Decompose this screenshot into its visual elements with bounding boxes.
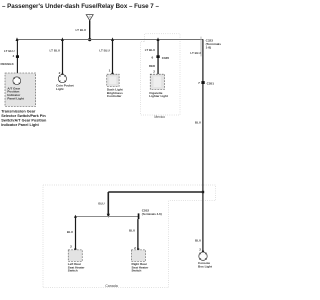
svg-text:C551: C551 <box>207 81 215 85</box>
power source triangle (fuse 7 feed) <box>86 15 93 21</box>
svg-text:Box Light: Box Light <box>198 264 212 268</box>
svg-text:Panel Light: Panel Light <box>7 96 23 100</box>
svg-text:BLU: BLU <box>98 201 104 205</box>
Canada option dotted outline (notched) <box>43 185 216 288</box>
arrow col2 <box>61 37 64 41</box>
connector square at pin 4 <box>16 55 19 58</box>
svg-text:Canada: Canada <box>105 284 118 288</box>
terminal nub <box>61 74 63 75</box>
connector C551 <box>201 81 204 84</box>
svg-text:4: 4 <box>12 54 14 58</box>
svg-text:LT BLU: LT BLU <box>99 48 109 52</box>
node at left heater drop <box>74 215 77 218</box>
wire: bottom distribution line <box>75 216 138 218</box>
wire: thick branch horizontal <box>108 191 203 193</box>
terminal nub <box>202 251 204 252</box>
svg-text:Light: Light <box>56 87 63 91</box>
wire col4 <box>157 40 159 75</box>
svg-text:Switch/A/T Gear Position: Switch/A/T Gear Position <box>1 118 47 122</box>
wire: thick branch vertical <box>107 192 109 216</box>
svg-text:2: 2 <box>59 71 61 75</box>
svg-text:2: 2 <box>153 70 155 74</box>
terminal nub <box>74 248 76 250</box>
svg-text:BLU: BLU <box>195 238 201 242</box>
svg-text:LT BLU: LT BLU <box>76 28 86 32</box>
component box: dash light brightness controller <box>107 74 119 86</box>
junction to Canada branch <box>202 191 204 193</box>
svg-text:RED: RED <box>149 64 156 68</box>
svg-text:C335: C335 <box>162 56 170 60</box>
svg-text:1-8): 1-8) <box>206 46 212 50</box>
wire left heater <box>75 217 77 250</box>
component box: transmission gear selector illumination <box>5 73 36 106</box>
svg-text:Transmission Gear: Transmission Gear <box>1 109 36 113</box>
wire: feed from triangle to bus <box>89 20 91 39</box>
wire col1 <box>16 40 18 78</box>
wire right heater <box>137 219 139 250</box>
svg-text:Controller: Controller <box>107 94 122 98</box>
svg-text:(Terminals 4-6): (Terminals 4-6) <box>142 212 162 216</box>
svg-text:6: 6 <box>151 56 153 60</box>
svg-text:BLU: BLU <box>129 229 135 233</box>
svg-text:Switch: Switch <box>68 269 78 273</box>
terminal nub <box>111 73 113 74</box>
component box <box>131 250 145 262</box>
lamp: console box light <box>199 252 207 260</box>
svg-text:LT BLU: LT BLU <box>145 48 155 52</box>
wire col2 <box>62 40 64 75</box>
svg-text:LT BLU: LT BLU <box>50 49 60 53</box>
node: splice on bus <box>88 38 91 41</box>
svg-text:7: 7 <box>198 81 200 85</box>
arrow col4 <box>157 37 160 41</box>
svg-text:Lighter Light: Lighter Light <box>149 94 168 98</box>
svg-text:– Passenger's Under-dash Fuse/: – Passenger's Under-dash Fuse/Relay Box … <box>2 3 159 10</box>
node: splice at bottom bus <box>107 214 110 218</box>
svg-text:Selector Switch/Park Pin: Selector Switch/Park Pin <box>1 114 46 118</box>
arrow col1 <box>16 37 19 41</box>
connector C552 <box>138 213 140 219</box>
svg-text:Indicator Panel Light: Indicator Panel Light <box>1 123 39 127</box>
svg-text:Switch: Switch <box>132 269 142 273</box>
wire right column down <box>202 39 204 252</box>
svg-text:Mexico: Mexico <box>154 115 165 119</box>
wire: horizontal bus <box>17 39 203 41</box>
Mexico option dotted box <box>141 34 180 115</box>
svg-text:LT BLU: LT BLU <box>4 49 14 53</box>
terminal nub <box>137 248 139 250</box>
svg-text:BLU: BLU <box>67 230 73 234</box>
svg-text:LT BLU: LT BLU <box>190 51 200 55</box>
lamp: coin pocket light <box>58 75 66 83</box>
svg-text:1: 1 <box>109 69 111 73</box>
svg-text:2: 2 <box>199 248 201 252</box>
component box <box>68 250 82 262</box>
lamp: A/T gear position indicator panel light <box>13 77 21 85</box>
svg-text:RED/BLK: RED/BLK <box>0 62 14 66</box>
connector bar C323 <box>200 37 202 57</box>
svg-text:BLU: BLU <box>195 120 201 124</box>
connector C335 <box>156 55 159 58</box>
svg-text:2: 2 <box>134 246 136 250</box>
component box: cigarette lighter light <box>150 74 164 89</box>
svg-text:2: 2 <box>70 244 72 248</box>
arrow col3 <box>111 37 114 41</box>
wire col3 <box>112 40 114 75</box>
